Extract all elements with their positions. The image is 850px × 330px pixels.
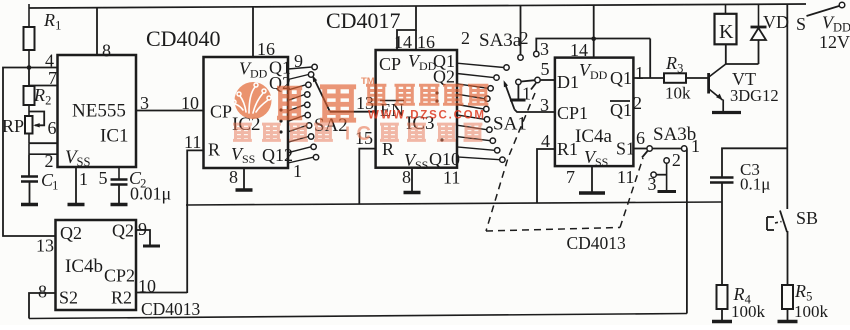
- wire SB to R5: [787, 231, 789, 285]
- svg-text:Q12: Q12: [262, 145, 293, 165]
- ellipsis dots IC3 outputs: [435, 91, 443, 141]
- wire junction to R2 top / pin 7: [28, 68, 30, 87]
- svg-text:8: 8: [38, 282, 47, 302]
- svg-text:IC4a: IC4a: [575, 126, 613, 147]
- wire pin 1 Q1 to R3: [633, 77, 664, 79]
- wire pin 6 S1 to SA3b: [633, 148, 647, 150]
- wire C3 bottom to reset net and R4: [721, 183, 723, 286]
- svg-text:SS: SS: [242, 152, 255, 166]
- svg-text:NE555: NE555: [72, 101, 126, 122]
- svg-text:11: 11: [443, 168, 460, 188]
- SA3b common contact circle: [647, 146, 652, 151]
- svg-text:VD: VD: [763, 12, 789, 32]
- svg-text:3: 3: [140, 93, 149, 113]
- ground pin 8 IC2: [243, 168, 245, 190]
- node junction dot VDD line: [591, 37, 596, 42]
- svg-text:SB: SB: [796, 208, 818, 228]
- label R1: [43, 10, 61, 33]
- capacitor C1: [21, 154, 38, 181]
- svg-text:1: 1: [522, 84, 531, 104]
- svg-text:R: R: [382, 139, 394, 159]
- SA3a contact 3 bracket wire: [536, 39, 650, 52]
- svg-text:4: 4: [541, 131, 550, 151]
- switch SA1 wiper arm: [504, 80, 515, 109]
- label R3: [665, 53, 683, 76]
- op-amp/timer U1 NE555 IC1 box: [58, 55, 137, 167]
- wire pin 8 S2 to bottom net: [29, 293, 56, 319]
- svg-text:6: 6: [48, 118, 57, 138]
- wire SA3a contact 2 from top rail: [520, 5, 522, 55]
- svg-text:3DG12: 3DG12: [730, 86, 779, 105]
- svg-text:1: 1: [293, 161, 302, 181]
- ellipsis dots IC2 outputs: [279, 108, 282, 133]
- svg-text:16: 16: [257, 39, 275, 59]
- svg-text:CD4013: CD4013: [567, 233, 627, 253]
- EN label with overline IC3: [380, 100, 404, 120]
- wire pin 4 R1 to reset net: [537, 149, 555, 203]
- svg-text:3: 3: [648, 174, 657, 194]
- switch S blade: [807, 6, 840, 16]
- svg-text:10: 10: [181, 93, 199, 113]
- ground pin 8 IC3: [411, 168, 413, 193]
- SA1 contact circles: [484, 65, 510, 163]
- svg-text:CP2: CP2: [104, 266, 135, 286]
- SA3b contact 2 circle: [664, 158, 669, 163]
- svg-text:1: 1: [79, 169, 88, 189]
- svg-text:SS: SS: [595, 155, 608, 169]
- wire C3 top branch: [722, 148, 787, 177]
- svg-text:DD: DD: [250, 67, 268, 81]
- wire pin 11 IC2 reset to reset net riser: [187, 150, 203, 293]
- wire pin 2: [29, 143, 58, 154]
- watermark characters 电子市场网: [366, 84, 386, 104]
- svg-text:K: K: [719, 21, 734, 43]
- svg-text:R: R: [794, 281, 806, 301]
- svg-text:2: 2: [672, 150, 681, 170]
- ground C1: [29, 182, 31, 205]
- svg-text:8: 8: [102, 41, 111, 61]
- svg-text:8: 8: [229, 167, 238, 187]
- Vss label IC1: [65, 147, 90, 169]
- svg-text:7: 7: [566, 167, 575, 187]
- SA3b contact 2 stub to ground bar: [658, 163, 677, 191]
- svg-text:SS: SS: [415, 158, 428, 172]
- label C2: [129, 168, 146, 191]
- svg-text:5: 5: [541, 59, 550, 79]
- svg-text:10: 10: [138, 276, 156, 296]
- wire right rail: [786, 4, 788, 209]
- label VDD supply: [822, 13, 850, 35]
- svg-text:SA3a: SA3a: [479, 30, 522, 51]
- Vdd label IC4a: [579, 60, 608, 82]
- SA3a contact 1 circle: [516, 79, 521, 84]
- svg-text:R: R: [43, 10, 55, 30]
- Vdd label IC2: [239, 59, 268, 81]
- wire bottom net: [29, 314, 687, 319]
- svg-text:S1: S1: [616, 139, 635, 159]
- svg-text:CD4013: CD4013: [141, 299, 201, 319]
- resistor R2: [24, 86, 35, 105]
- dashed CD4013 package boundary: [486, 93, 643, 231]
- pin 9 stub with bar: [136, 230, 160, 246]
- watermark row 2 characters: [233, 123, 252, 140]
- resistor R3: [664, 73, 686, 83]
- label C1: [41, 170, 58, 193]
- wires IC3 outputs to SA1 contacts: [457, 63, 504, 160]
- ground VT emitter: [712, 111, 741, 114]
- wire pin 4: [29, 67, 58, 69]
- svg-text:SA1: SA1: [493, 114, 527, 135]
- svg-text:1: 1: [55, 19, 61, 33]
- svg-text:CP: CP: [210, 102, 232, 122]
- SA3a wiper blade (open): [531, 83, 536, 90]
- svg-text:3: 3: [677, 62, 683, 76]
- svg-text:WWW.DZSC.COM: WWW.DZSC.COM: [368, 110, 484, 122]
- svg-text:5: 5: [99, 168, 108, 188]
- wire SA3b to contact 1: [652, 148, 681, 150]
- wire SA1 wiper to IC4a pin 3 CP1: [515, 110, 555, 113]
- svg-text:C: C: [357, 123, 371, 145]
- svg-text:13: 13: [36, 236, 54, 256]
- wire collector node to K and VD: [726, 44, 759, 64]
- counter U3 CD4017 IC3 box: [376, 50, 457, 168]
- svg-text:12V: 12V: [819, 32, 850, 52]
- svg-text:R1: R1: [557, 139, 578, 159]
- svg-text:2: 2: [45, 94, 51, 108]
- SA3a contact 1 stub with bar: [510, 85, 526, 100]
- wires IC2 outputs to SA2 contacts: [288, 67, 313, 163]
- svg-text:2: 2: [461, 28, 470, 48]
- wire pin 16 IC2: [252, 6, 254, 57]
- svg-text:0.1μ: 0.1μ: [740, 175, 770, 194]
- svg-text:16: 16: [417, 32, 435, 52]
- svg-text:S2: S2: [59, 288, 78, 308]
- svg-text:11: 11: [184, 132, 201, 152]
- svg-text:10k: 10k: [665, 84, 691, 103]
- SA3b contact 1 circle: [682, 146, 687, 151]
- svg-text:100k: 100k: [731, 302, 766, 321]
- svg-text:SS: SS: [77, 155, 91, 169]
- svg-text:DD: DD: [590, 68, 608, 82]
- wire SA2 wiper to IC3 pin 13: [330, 111, 376, 113]
- svg-text:8: 8: [402, 167, 411, 187]
- wire SA3a contact1 to D1 contact: [521, 80, 535, 81]
- svg-text:1: 1: [635, 63, 644, 83]
- svg-text:R: R: [733, 284, 745, 304]
- wire IC4b pin10 R2: [136, 292, 187, 294]
- svg-text:Q2: Q2: [60, 223, 82, 243]
- Vss label IC4a: [584, 147, 608, 169]
- switch S contact circle: [839, 2, 845, 8]
- resistor R1: [24, 4, 35, 68]
- wire reset net horizontal: [186, 202, 722, 205]
- svg-text:1: 1: [52, 179, 58, 193]
- svg-text:R: R: [208, 140, 220, 160]
- relay K: [715, 4, 737, 44]
- SA3b wiper blade (open): [642, 151, 648, 158]
- RP wiper arm: [29, 112, 44, 128]
- wire pin 8 NE555: [96, 7, 98, 55]
- label R5: [794, 281, 812, 304]
- svg-text:CD4040: CD4040: [146, 26, 221, 51]
- watermark logo circle: [232, 82, 272, 119]
- svg-text:2: 2: [633, 93, 642, 113]
- switch SA2 wiper arm: [312, 75, 329, 111]
- flip-flop U4a CD4013 IC4a box: [555, 58, 634, 167]
- ground pin 1 NE555: [75, 167, 77, 205]
- ground pin 7 IC4a: [591, 166, 593, 193]
- ground R5: [787, 309, 789, 322]
- flip-flop U4b CD4013 IC4b box: [56, 220, 137, 310]
- svg-text:9: 9: [138, 219, 147, 239]
- svg-text:14: 14: [570, 40, 588, 60]
- svg-text:Q2: Q2: [112, 221, 134, 241]
- svg-text:3: 3: [540, 95, 549, 115]
- svg-text:S: S: [796, 14, 806, 34]
- svg-text:14: 14: [394, 32, 412, 52]
- svg-text:100k: 100k: [794, 302, 829, 321]
- svg-text:CP1: CP1: [557, 103, 588, 123]
- svg-text:Q2: Q2: [433, 67, 455, 87]
- potentiometer RP: [25, 105, 33, 143]
- label R2: [33, 85, 51, 108]
- node R1-R2 junction (pin4 net): [27, 65, 32, 70]
- resistor R5: [782, 285, 793, 309]
- counter U2 CD4040 IC2 box: [204, 57, 289, 168]
- svg-text:6: 6: [636, 128, 645, 148]
- svg-text:9: 9: [294, 51, 303, 71]
- SA2 contact circles: [305, 64, 319, 160]
- svg-text:CD4017: CD4017: [326, 8, 401, 33]
- svg-text:2: 2: [45, 151, 54, 171]
- svg-text:Q1: Q1: [610, 68, 632, 88]
- wire IC3 pin15 riser: [359, 149, 375, 205]
- wire R3 to VT base: [686, 77, 709, 79]
- svg-text:SA3b: SA3b: [653, 124, 696, 145]
- svg-text:Q1: Q1: [610, 100, 632, 120]
- transistor Q1 VT 3DG12: [709, 64, 726, 111]
- SA3a contact 3 circle: [534, 51, 539, 56]
- svg-text:R2: R2: [111, 288, 132, 308]
- wire left rail from R1 junction to IC4b pin13: [3, 68, 56, 237]
- svg-text:IC1: IC1: [100, 126, 129, 147]
- wire pin 3 NE555 to CP of IC2: [136, 110, 204, 112]
- ground R4: [721, 309, 723, 322]
- pushbutton SB: [767, 211, 787, 233]
- wire pin 16 stub: [415, 30, 417, 50]
- svg-text:IC4b: IC4b: [65, 256, 103, 277]
- svg-text:D1: D1: [557, 72, 579, 92]
- wire pins 14 & 16 from top rail: [397, 6, 416, 51]
- wire contact1 corner down to bottom net: [686, 149, 688, 314]
- SA3a contact 2 circle: [518, 55, 523, 60]
- wire feedback from Q1 wire up to SA3a line: [649, 39, 651, 79]
- svg-text:3: 3: [540, 39, 549, 59]
- svg-text:0.01μ: 0.01μ: [130, 184, 171, 204]
- Vdd label IC3: [408, 51, 437, 73]
- svg-text:11: 11: [617, 167, 634, 187]
- svg-text:CP: CP: [379, 54, 401, 74]
- svg-text:2: 2: [520, 28, 529, 48]
- svg-text:R: R: [33, 85, 45, 105]
- diode VD: [751, 4, 767, 64]
- svg-text:R: R: [665, 53, 677, 73]
- wire pin 6: [29, 142, 58, 144]
- svg-text:Q10: Q10: [429, 149, 460, 169]
- label R4: [733, 284, 752, 307]
- Vss label IC2: [231, 144, 255, 166]
- ground C2: [118, 185, 120, 205]
- wire D1 contact to IC4a pin 5: [540, 79, 555, 81]
- wire top VDD rail: [29, 4, 806, 8]
- D1 input contact circle: [535, 77, 540, 82]
- Vss label IC3: [404, 150, 428, 172]
- watermark big characters 维库: [277, 86, 302, 118]
- wire pin 7: [29, 85, 58, 87]
- wire pin 14 IC4a from top rail: [593, 5, 595, 58]
- Q1-bar label IC4a with overline: [610, 100, 632, 120]
- wire contact 3 to stub: [656, 174, 666, 176]
- svg-text:1: 1: [691, 136, 700, 156]
- capacitor C2: [111, 167, 128, 185]
- resistor R4: [717, 285, 728, 309]
- svg-text:RP: RP: [2, 116, 24, 136]
- SA3b contact 3 circle: [651, 172, 656, 177]
- svg-text:7: 7: [48, 68, 57, 88]
- svg-text:I: I: [345, 124, 350, 144]
- capacitor C3: [710, 178, 734, 183]
